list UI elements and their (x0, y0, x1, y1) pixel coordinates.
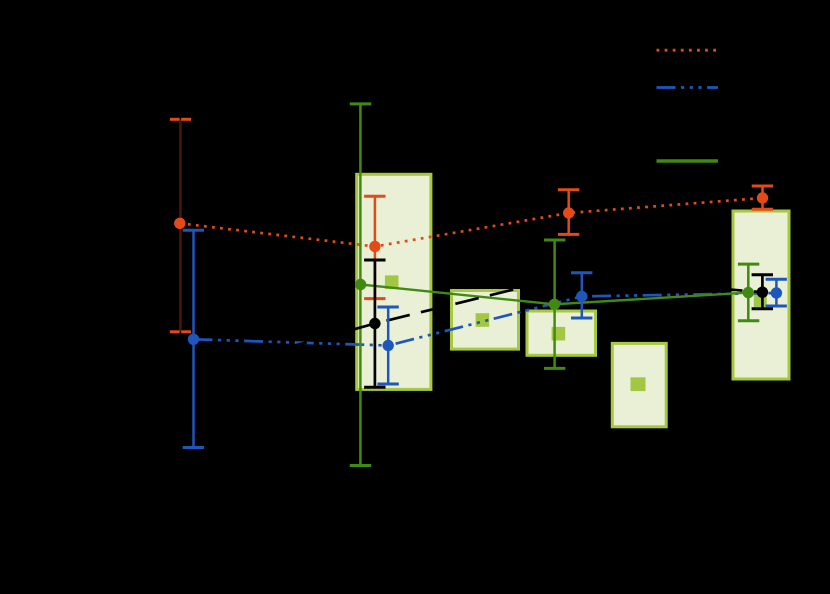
blue errorbar g1 (183, 230, 204, 447)
red dotted trend line (180, 198, 763, 247)
black series (181, 260, 773, 387)
black errorbar g2 (364, 260, 385, 387)
box E (group 6) (733, 211, 789, 379)
median square E (754, 294, 767, 307)
median square A (385, 275, 399, 289)
green marker g4 (549, 299, 560, 310)
blue marker g6 (771, 287, 782, 298)
green trend line (361, 285, 749, 305)
legend entry 2: blue dash-dot sample (657, 86, 719, 89)
blue dash-dot-dot trend line (194, 293, 777, 346)
blue markers (188, 287, 782, 351)
legend entry 3: black dashed sample (657, 123, 719, 126)
black markers (369, 287, 768, 330)
red errorbar g3 (558, 190, 579, 235)
legend entry 4: green solid sample (657, 159, 719, 162)
green errorbar g4 (544, 240, 565, 368)
red errorbar g2 (364, 196, 385, 298)
blue errorbar g2 (377, 307, 398, 384)
red marker g1 (174, 218, 185, 229)
black dashed trend line (181, 276, 569, 377)
green marker g2 (355, 279, 366, 290)
green errorbar g6 (738, 264, 759, 321)
blue marker g1 (188, 334, 199, 345)
box C (group 4) (527, 311, 596, 355)
median square B (476, 313, 490, 327)
green series (350, 104, 760, 466)
black dashed trend line (right part) (569, 276, 763, 292)
red marker g3 (563, 207, 574, 218)
red marker g2 (369, 241, 380, 252)
red series (170, 119, 773, 331)
red markers (174, 192, 768, 252)
blue series (183, 230, 787, 447)
box A (group 2) (357, 174, 431, 389)
blue errorbar g6 (766, 279, 787, 306)
blue errorbar g3 (571, 273, 592, 318)
box B (group 3) (452, 291, 519, 350)
red errorbar g1 (thin dark line, dashed caps) (170, 119, 191, 331)
black marker g6 (757, 287, 768, 298)
median square C (552, 327, 566, 341)
green errorbar g2 (350, 104, 371, 466)
green marker g6 (743, 287, 754, 298)
green markers (355, 279, 754, 310)
black marker g2 (369, 318, 380, 329)
blue marker g3 (576, 291, 587, 302)
box D (group 5) (612, 343, 666, 426)
median square D (631, 377, 646, 391)
black errorbar g6 (752, 275, 773, 309)
red marker g4 (757, 192, 768, 203)
red errorbar g4 (752, 186, 773, 209)
blue marker g2 (383, 340, 394, 351)
legend entry 1: red dotted sample (657, 49, 719, 52)
